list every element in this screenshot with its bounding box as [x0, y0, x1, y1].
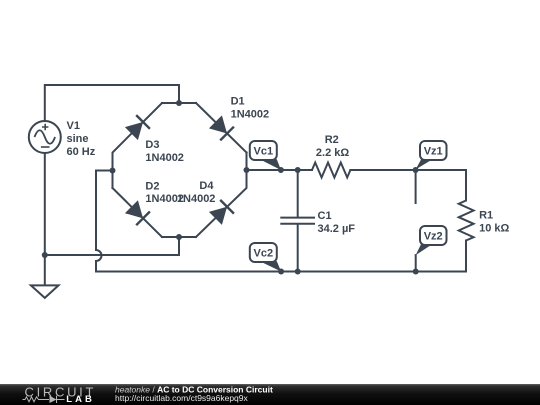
- wire top feed V1+ to bridge top: [45, 85, 179, 121]
- label D4: [177, 180, 216, 205]
- svg-text:2.2 kΩ: 2.2 kΩ: [316, 147, 349, 159]
- node Vc1: [278, 167, 284, 173]
- wire bridge octagon top segment: [162, 102, 196, 104]
- svg-text:sine: sine: [67, 133, 89, 145]
- svg-text:LAB: LAB: [66, 394, 95, 405]
- wire bridge upper-left diagonal: [113, 103, 163, 188]
- svg-text:1N4002: 1N4002: [231, 109, 270, 121]
- wire bridge bottom segment: [162, 236, 196, 238]
- svg-text:1N4002: 1N4002: [177, 193, 216, 205]
- footer logo squiggle and diode: [23, 396, 65, 403]
- svg-text:Vc1: Vc1: [254, 146, 274, 158]
- svg-text:Vz1: Vz1: [424, 146, 443, 158]
- node bridge bottom: [176, 234, 182, 240]
- resistor R2: [312, 163, 350, 178]
- wire bridge upper-right diagonal: [196, 103, 247, 153]
- node Vz1: [413, 167, 419, 173]
- svg-text:R2: R2: [325, 134, 339, 146]
- svg-text:34.2 µF: 34.2 µF: [318, 223, 356, 235]
- svg-text:D3: D3: [145, 139, 159, 151]
- voltage source V1: [29, 121, 61, 153]
- svg-text:10 kΩ: 10 kΩ: [479, 223, 509, 235]
- wire DC- from bridge left node with hop over AC wire, to bottom rail: [96, 171, 466, 272]
- label D1: [231, 95, 270, 120]
- svg-text:Vz2: Vz2: [424, 231, 443, 243]
- wire AC return junction to bridge bottom: [45, 237, 179, 255]
- node Vz2: [413, 269, 419, 275]
- diode D4: [209, 200, 234, 225]
- flag Vz2: [416, 226, 447, 255]
- wire bridge lower-right diagonal: [196, 153, 247, 238]
- footer bar: [0, 384, 540, 405]
- node C1 bottom: [295, 269, 301, 275]
- wire Vz2 stub: [415, 255, 417, 271]
- wire C1 bottom lead: [297, 225, 299, 272]
- svg-text:D2: D2: [145, 180, 159, 192]
- svg-text:C1: C1: [318, 210, 332, 222]
- node Vc2: [278, 269, 284, 275]
- node bridge top: [176, 100, 182, 106]
- svg-text:V1: V1: [67, 120, 80, 132]
- wire R1 bottom to bottom rail: [465, 241, 467, 272]
- flag Vc2: [250, 243, 281, 272]
- node C1 top: [295, 167, 301, 173]
- wire V1- lead down to junction: [44, 153, 46, 255]
- svg-text:http://circuitlab.com/ct9s9a6k: http://circuitlab.com/ct9s9a6kepq9x: [115, 393, 249, 403]
- diode D1: [209, 115, 234, 140]
- svg-text:R1: R1: [479, 210, 493, 222]
- label R2: [316, 134, 349, 159]
- wire C1 top lead: [297, 170, 299, 217]
- ground: [31, 285, 59, 298]
- svg-text:D1: D1: [231, 95, 245, 107]
- label V1 value: [67, 120, 96, 158]
- node V1 return junction: [42, 252, 48, 258]
- svg-text:Vc2: Vc2: [254, 248, 274, 260]
- flag Vz1: [416, 141, 447, 170]
- wire DC+ bridge right node to R2: [247, 169, 313, 171]
- wire ground lead: [44, 255, 46, 285]
- svg-text:1N4002: 1N4002: [145, 152, 184, 164]
- label R1: [479, 210, 509, 235]
- wire R2 to top-right corner down to R1: [350, 170, 466, 201]
- node bridge left: [110, 168, 116, 174]
- label D2: [145, 180, 184, 205]
- label C1: [318, 210, 356, 235]
- wire bridge lower-left diagonal: [113, 188, 163, 237]
- capacitor C1: [280, 218, 315, 224]
- diode D3: [125, 115, 150, 140]
- svg-text:D4: D4: [199, 180, 214, 192]
- label D3: [145, 139, 184, 164]
- wire Vz1 stub: [415, 170, 417, 203]
- diode D2: [125, 200, 150, 225]
- flag Vc1: [250, 141, 281, 170]
- svg-text:60 Hz: 60 Hz: [67, 146, 96, 158]
- node bridge right: [244, 167, 250, 173]
- resistor R1: [459, 201, 474, 241]
